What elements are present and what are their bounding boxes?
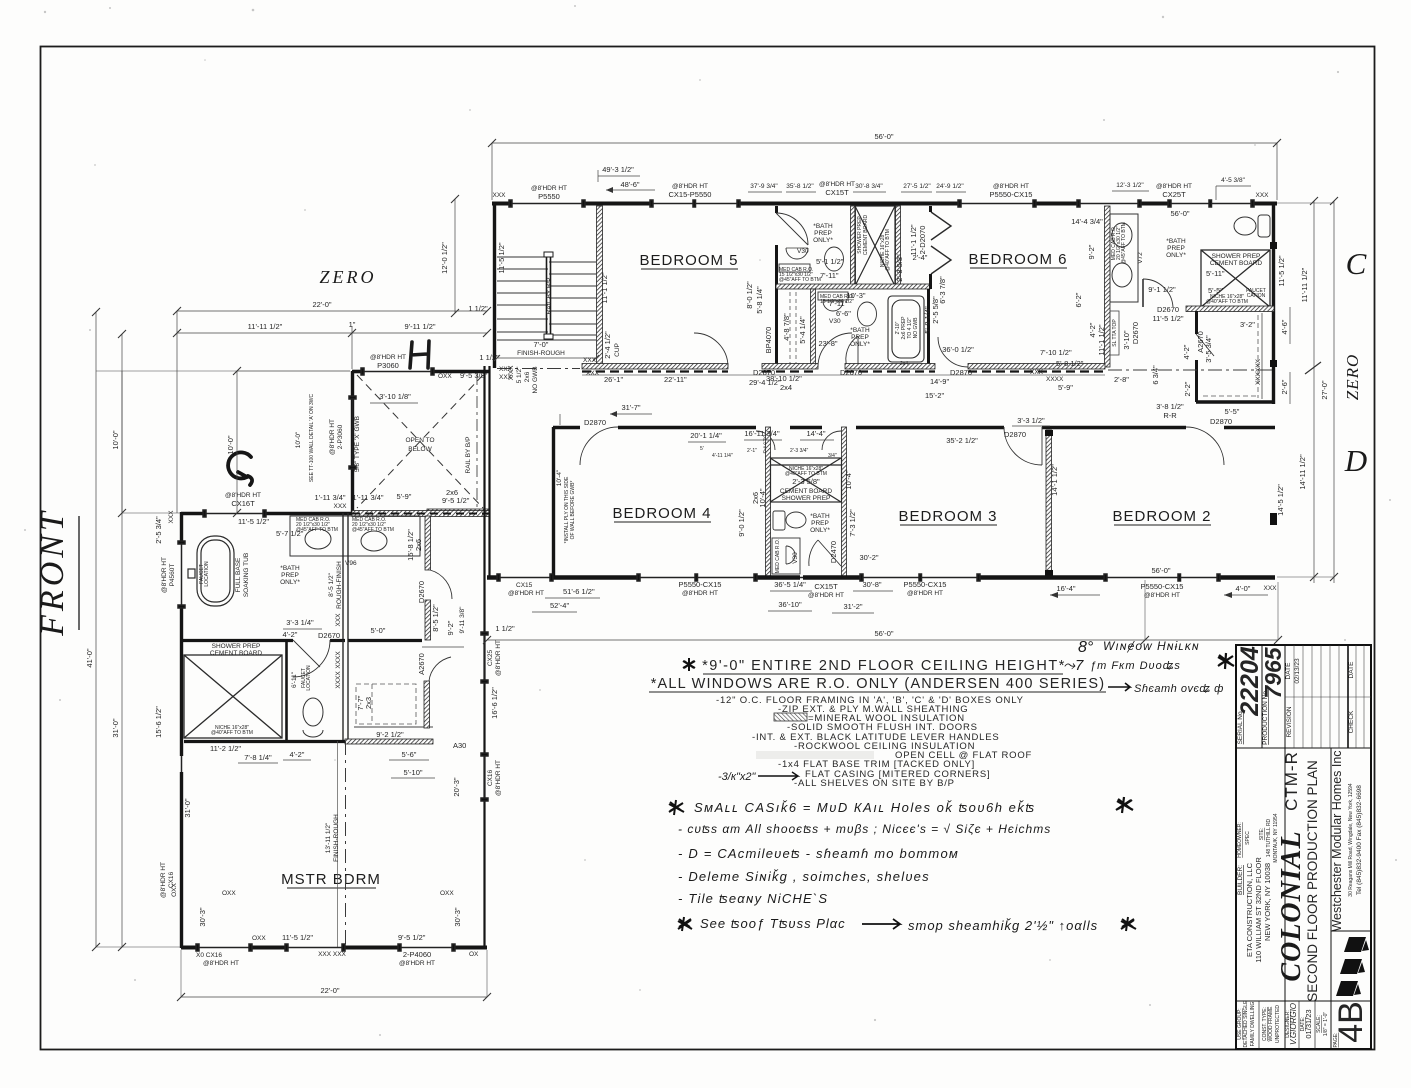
wall: mid bath left hatched x768	[766, 427, 771, 578]
svg-text:@8'HDR HT: @8'HDR HT	[495, 760, 502, 796]
svg-text:@8'HDR HT: @8'HDR HT	[531, 185, 567, 192]
shower prep wing box	[184, 655, 282, 738]
svg-text:BEDROOM 5: BEDROOM 5	[639, 252, 738, 269]
svg-text:3'-10 1/8": 3'-10 1/8"	[379, 392, 411, 401]
window mid bottom	[285, 944, 345, 951]
room label BEDROOM 6	[968, 251, 1067, 268]
svg-text:10'-4": 10'-4"	[844, 470, 853, 489]
revision table	[1285, 645, 1371, 748]
svg-text:22'-0": 22'-0"	[312, 300, 331, 309]
window CX15 bottom-left	[497, 574, 553, 581]
room label BEDROOM 2	[1112, 508, 1211, 525]
svg-text:BEDROOM 4: BEDROOM 4	[612, 505, 711, 522]
svg-text:5'-9": 5'-9"	[397, 492, 412, 501]
logo box divider	[1331, 930, 1371, 932]
svg-text:8'-5 1/2": 8'-5 1/2"	[328, 572, 335, 596]
svg-text:56'-0": 56'-0"	[874, 132, 893, 141]
svg-text:R-R: R-R	[1163, 411, 1177, 420]
window P5550-CX15 bedroom3	[860, 574, 980, 581]
title block outer	[1236, 645, 1371, 1049]
svg-text:20'-1 1/4": 20'-1 1/4"	[690, 431, 722, 440]
svg-text:7'-11": 7'-11"	[820, 271, 839, 280]
wall: hall hatched x428 y600-640	[425, 600, 431, 640]
svg-text:FRONT: FRONT	[34, 508, 71, 637]
window P5550-CX15 bedroom4	[637, 574, 757, 581]
svg-text:8'-0 1/2": 8'-0 1/2"	[745, 281, 754, 309]
svg-text:5'-8 1/4": 5'-8 1/4"	[923, 306, 932, 334]
svg-text:1 1/2": 1 1/2"	[468, 304, 488, 313]
wing mate line x345 y640-741	[343, 640, 348, 741]
svg-text:3'-2": 3'-2"	[1240, 320, 1255, 329]
left vertical dim 10'-0" upper	[111, 371, 122, 513]
svg-text:REVISION: REVISION	[1286, 706, 1293, 737]
wall: bedroom3/2 divider x1048	[1046, 430, 1052, 573]
svg-text:7'-3 1/2": 7'-3 1/2"	[848, 509, 857, 537]
svg-text:4'-2": 4'-2"	[290, 750, 305, 759]
door D2870 bedroom4	[580, 427, 618, 465]
svg-text:FAMILY DWELLING: FAMILY DWELLING	[1250, 1001, 1256, 1046]
svg-text:ETA CONSTRUCTION, LLC: ETA CONSTRUCTION, LLC	[1245, 862, 1254, 957]
vertical dim 10'-0" at x237	[226, 367, 350, 517]
svg-text:ONLY*: ONLY*	[280, 579, 300, 586]
dim 22'-0" top-left	[173, 300, 491, 315]
svg-text:7'-10 1/2": 7'-10 1/2"	[1040, 348, 1072, 357]
wall: wc top y640	[181, 639, 422, 642]
svg-text:11'-11 1/2": 11'-11 1/2"	[248, 322, 283, 331]
svg-text:@8'HDR HT: @8'HDR HT	[495, 640, 502, 676]
svg-text:@45"AFF TO BTM: @45"AFF TO BTM	[1121, 222, 1127, 264]
svg-text:9'-5 1/2": 9'-5 1/2"	[398, 933, 426, 942]
svg-text:56'-0": 56'-0"	[874, 629, 893, 638]
svg-text:*ALL WINDOWS ARE R.O. ONLY (AN: *ALL WINDOWS ARE R.O. ONLY (ANDERSEN 400…	[651, 676, 1106, 692]
svg-text:5'-1 1/2": 5'-1 1/2"	[816, 257, 844, 266]
svg-text:XXX: XXX	[335, 613, 342, 627]
svg-text:5'-8 1/2": 5'-8 1/2"	[1056, 359, 1084, 368]
svg-text:ONLY*: ONLY*	[813, 237, 833, 244]
svg-text:30 Reagans Mill Road, Wingdale: 30 Reagans Mill Road, Wingdale, New York…	[1348, 783, 1354, 897]
svg-text:X/XX: X/XX	[508, 365, 515, 380]
svg-text:11'-5 1/2": 11'-5 1/2"	[282, 933, 313, 942]
svg-text:UNPROTECTED: UNPROTECTED	[1275, 1005, 1281, 1043]
svg-text:5'-9": 5'-9"	[1058, 383, 1073, 392]
svg-text:2-D2070: 2-D2070	[918, 226, 927, 255]
arrows under y741 dims	[238, 760, 435, 778]
svg-text:D2870: D2870	[584, 418, 606, 427]
window 2-P4060 bottom	[398, 944, 455, 951]
svg-text:2'-4 1/2": 2'-4 1/2"	[603, 331, 612, 359]
svg-text:49'-3 1/2": 49'-3 1/2"	[602, 165, 634, 174]
svg-text:FULL BASE: FULL BASE	[235, 557, 242, 592]
stairs treads	[497, 257, 596, 335]
window X0 CX16 bottom	[196, 944, 252, 951]
svg-text:5'-8 1/4": 5'-8 1/4"	[755, 286, 764, 314]
wall: wing upper-left y513	[181, 512, 352, 515]
svg-text:22'-11": 22'-11"	[664, 375, 687, 384]
svg-text:CATION: CATION	[1247, 293, 1266, 299]
FRONT label (rotated)	[34, 508, 79, 637]
svg-text:3'-8 1/2": 3'-8 1/2"	[1156, 402, 1184, 411]
wall: left exterior x181	[180, 512, 183, 948]
svg-text:*BATH: *BATH	[813, 223, 833, 230]
tub full base soaking	[188, 536, 234, 606]
svg-text:5'-5": 5'-5"	[1208, 286, 1223, 295]
handwritten note H1	[669, 800, 684, 815]
svg-text:1'-11 3/4": 1'-11 3/4"	[352, 493, 383, 502]
svg-text:SHOWER PREP: SHOWER PREP	[782, 495, 831, 502]
dim 56'-0" bottom	[483, 580, 1282, 644]
svg-text:XXX: XXX	[333, 503, 347, 510]
svg-text:NO GWB: NO GWB	[532, 366, 539, 393]
window CX15-P5550 top	[650, 200, 740, 207]
svg-text:15'-2": 15'-2"	[925, 391, 944, 400]
svg-text:22'-0": 22'-0"	[320, 986, 339, 995]
svg-text:- D = CAстіleυeʦ - sɦeатɦ: - D = CAстіleυeʦ - sɦeатɦ тo boттoм	[678, 846, 959, 861]
svg-text:6'-2": 6'-2"	[1074, 292, 1083, 307]
svg-text:12'-3 1/2": 12'-3 1/2"	[1116, 182, 1144, 189]
wall: left wing top y371	[352, 370, 490, 374]
printed asterisk left	[683, 658, 695, 671]
bottom dim 22'-0" wing	[177, 950, 491, 1001]
svg-text:XXXX: XXXX	[335, 651, 342, 669]
svg-text:@8'HDR HT: @8'HDR HT	[203, 960, 239, 967]
svg-text:30'-2": 30'-2"	[859, 553, 878, 562]
svg-text:DETACHED SINGLE: DETACHED SINGLE	[1243, 1000, 1249, 1048]
svg-text:14'-5 1/2": 14'-5 1/2"	[1276, 484, 1285, 516]
svg-text:-3/к"х2": -3/к"х2"	[718, 771, 757, 783]
svg-text:XXX XXX: XXX XXX	[318, 951, 346, 958]
svg-text:5 1/2": 5 1/2"	[516, 366, 523, 383]
svg-text:CEMENT BOARD: CEMENT BOARD	[780, 488, 833, 495]
wall: shower1 left	[851, 206, 856, 286]
svg-text:10'-3": 10'-3"	[846, 291, 865, 300]
bath2 tub right	[888, 296, 924, 362]
svg-text:7'-11": 7'-11"	[829, 299, 848, 308]
svg-text:ZERO: ZERO	[320, 267, 377, 287]
svg-text:31'-2": 31'-2"	[843, 602, 862, 611]
svg-text:SHOWER PREP: SHOWER PREP	[212, 643, 261, 650]
svg-text:4'-0": 4'-0"	[1236, 584, 1251, 593]
svg-text:P3060: P3060	[377, 361, 399, 370]
svg-text:@8'HDR HT: @8'HDR HT	[1156, 183, 1192, 190]
svg-text:@8'HDR HT: @8'HDR HT	[808, 592, 844, 599]
svg-text:ONLY*: ONLY*	[850, 341, 870, 348]
wall: closet left x930	[929, 206, 932, 212]
svg-text:CX15T: CX15T	[814, 582, 838, 591]
svg-text:1 1/2": 1 1/2"	[495, 624, 515, 633]
bath2 fixtures	[818, 292, 877, 326]
svg-text:5'-6": 5'-6"	[402, 750, 417, 759]
window CX16 right wall lower	[481, 753, 488, 801]
svg-text:9'-1 1/2": 9'-1 1/2"	[1148, 285, 1176, 294]
wall: closet right hatched A2670	[424, 681, 430, 728]
svg-text:6'-3 7/8": 6'-3 7/8"	[938, 276, 947, 304]
svg-text:5/8" TYPE 'X' GWB: 5/8" TYPE 'X' GWB	[354, 416, 361, 472]
svg-text:20'-3": 20'-3"	[452, 777, 461, 796]
svg-text:BEDROOM 6: BEDROOM 6	[968, 251, 1067, 268]
svg-text:-ALL SHELVES ON SITE BY B/P: -ALL SHELVES ON SITE BY B/P	[794, 778, 955, 789]
svg-text:@8'HDR HT: @8'HDR HT	[1144, 592, 1180, 599]
wall: bath1 bottom y286	[776, 284, 930, 289]
svg-text:CTM-R: CTM-R	[1282, 751, 1301, 811]
mid bath toilet	[773, 511, 806, 530]
svg-text:PREP: PREP	[814, 230, 832, 237]
svg-text:7'-0": 7'-0"	[534, 340, 549, 349]
svg-text:36'-0 1/2": 36'-0 1/2"	[942, 345, 974, 354]
svg-text:XXX: XXX	[586, 370, 600, 377]
svg-text:CX25T: CX25T	[1162, 190, 1186, 199]
svg-text:SECOND FLOOR PRODUCTION PLAN: SECOND FLOOR PRODUCTION PLAN	[1305, 760, 1320, 1002]
svg-text:36'-10": 36'-10"	[778, 600, 802, 609]
svg-text:BEDROOM 3: BEDROOM 3	[898, 508, 997, 525]
window 2-P3060 on x352	[349, 396, 356, 469]
door A2670 right	[1196, 334, 1214, 356]
stair landing line	[497, 339, 596, 341]
wall: top module left exterior	[493, 202, 496, 368]
svg-text:@45"AFF TO BTM: @45"AFF TO BTM	[779, 277, 821, 283]
svg-text:@8'HDR HT: @8'HDR HT	[993, 183, 1029, 190]
svg-text:15'-8 1/2": 15'-8 1/2"	[406, 529, 415, 561]
svg-text:30'-8": 30'-8"	[862, 580, 881, 589]
svg-text:110 WILLIAM ST 32ND FLOOR: 110 WILLIAM ST 32ND FLOOR	[1254, 857, 1263, 963]
svg-text:See ʦooƒ Tʦυss Plαс: See ʦooƒ Tʦυss Plαс	[700, 916, 846, 931]
note line 2: windows RO	[649, 676, 1106, 692]
svg-text:D2670: D2670	[1157, 305, 1179, 314]
svg-text:CHECK: CHECK	[1348, 710, 1355, 733]
svg-text:30'-3": 30'-3"	[453, 907, 462, 926]
wall: rooms bottom y577 with windows	[487, 575, 1275, 580]
svg-text:56'-0": 56'-0"	[1170, 209, 1189, 218]
svg-text:WOOD FRAME: WOOD FRAME	[1268, 1006, 1274, 1042]
svg-text:@8'HDR HT: @8'HDR HT	[399, 960, 435, 967]
svg-text:@8'HDR HT: @8'HDR HT	[370, 354, 406, 361]
svg-text:XXXXXX: XXXXXX	[1255, 358, 1262, 385]
svg-text:01/31/23: 01/31/23	[1304, 1009, 1313, 1038]
svg-text:4B: 4B	[1332, 1001, 1370, 1043]
svg-text:- Deleтe Sіɴіǩg , sоітche: - Deleтe Sіɴіǩg , sоітches, shelυes	[678, 869, 930, 884]
svg-text:1 1/2": 1 1/2"	[479, 353, 499, 362]
svg-text:LOCATION: LOCATION	[204, 561, 210, 587]
svg-text:3'-3 1/4": 3'-3 1/4"	[286, 618, 314, 627]
corridor door D2870 arc left	[694, 333, 728, 367]
door D2870 bedroom2	[1186, 427, 1224, 465]
svg-text:4'-5 3/8": 4'-5 3/8"	[1221, 177, 1245, 184]
window CX16T	[203, 510, 266, 517]
svg-text:35'-2 1/2": 35'-2 1/2"	[946, 436, 978, 445]
svg-text:P5550-CX15: P5550-CX15	[904, 580, 947, 589]
svg-text:CX25: CX25	[487, 649, 494, 666]
svg-text:11'-1 1/2": 11'-1 1/2"	[600, 272, 609, 303]
svg-text:CEMENT BOARD: CEMENT BOARD	[863, 215, 869, 256]
svg-text:9'-2": 9'-2"	[446, 620, 455, 635]
svg-text:52'-4": 52'-4"	[550, 601, 569, 610]
wall: bath2 right x928	[927, 289, 930, 367]
svg-text:CX15: CX15	[516, 582, 533, 589]
svg-text:SOAKING TUB: SOAKING TUB	[243, 553, 250, 597]
wall: top exterior	[492, 202, 1277, 206]
wall: right closet bottom y402	[1196, 400, 1274, 403]
svg-text:*BATH: *BATH	[850, 327, 870, 334]
svg-text:XXX: XXX	[492, 192, 506, 199]
logo parallelograms	[1336, 937, 1369, 996]
svg-text:2x6: 2x6	[414, 539, 423, 551]
right bath: toilet top-right	[1234, 215, 1270, 237]
svg-text:Westchester Modular Homes I: Westchester Modular Homes Inc	[1330, 750, 1344, 931]
svg-text:4'-6": 4'-6"	[1280, 319, 1289, 334]
svg-text:15'-6 1/2": 15'-6 1/2"	[154, 706, 163, 738]
svg-text:38'-10 1/2": 38'-10 1/2"	[766, 374, 802, 383]
svg-text:X0 CX16: X0 CX16	[196, 952, 222, 959]
wall: wing vertical x352	[351, 371, 354, 513]
svg-text:V72: V72	[1137, 252, 1144, 264]
svg-text:SHOWER PREP: SHOWER PREP	[1212, 253, 1261, 260]
svg-text:*BATH: *BATH	[280, 565, 300, 572]
svg-text:4'-2": 4'-2"	[1088, 322, 1097, 337]
svg-text:ƒт Fкт Dυoʥs: ƒт Fкт Dυoʥs	[1090, 660, 1181, 672]
svg-text:@8'HDR HT: @8'HDR HT	[225, 492, 261, 499]
svg-text:7965: 7965	[1260, 646, 1286, 698]
svg-text:D: D	[1344, 443, 1367, 478]
svg-text:24'-9 1/2": 24'-9 1/2"	[936, 183, 964, 190]
svg-text:P4560T: P4560T	[169, 564, 176, 587]
svg-text:8'-5 1/2": 8'-5 1/2"	[431, 604, 440, 632]
svg-text:@40"AFF TO BTM: @40"AFF TO BTM	[1206, 299, 1248, 305]
dim 7'-0" finish-rough	[494, 340, 599, 361]
svg-text:2x4: 2x4	[780, 383, 792, 392]
svg-text:4'-8 7/8": 4'-8 7/8"	[782, 313, 791, 341]
svg-text:26'-1": 26'-1"	[604, 375, 623, 384]
svg-text:SмAʟʟ CASıǩ6 = MυD КAıʟ: SмAʟʟ CASıǩ6 = MυD КAıʟ Holes oǩ ʦoυ6һ e…	[694, 800, 1036, 815]
svg-text:PREP: PREP	[811, 520, 829, 527]
wall: hall hatched x428 y513-570	[425, 516, 431, 570]
svg-text:16'-6 1/2": 16'-6 1/2"	[490, 687, 499, 719]
svg-text:27'-5 1/2": 27'-5 1/2"	[903, 183, 931, 190]
svg-text:D2870: D2870	[950, 368, 972, 377]
dim 12'-0 1/2" rotated	[440, 195, 459, 317]
window CX25 on right wall	[481, 632, 488, 683]
closet dashed area wing	[356, 684, 416, 724]
note line 1: ceiling height	[702, 658, 1066, 674]
svg-text:@8'HDR HT: @8'HDR HT	[819, 181, 855, 188]
svg-text:10'-0": 10'-0"	[295, 431, 302, 448]
bottom info row	[1236, 1000, 1371, 1002]
svg-text:XXX: XXX	[1255, 192, 1269, 199]
wall: wing mid y741	[184, 740, 345, 743]
svg-text:@8'HDR HT: @8'HDR HT	[508, 590, 544, 597]
corridor wall y366 hatched segments	[582, 364, 728, 370]
svg-text:11'-11 1/2": 11'-11 1/2"	[1300, 267, 1309, 302]
svg-text:10'-4": 10'-4"	[758, 488, 767, 507]
svg-text:30'-8 3/4": 30'-8 3/4"	[855, 183, 883, 190]
door D2670 wing hall	[430, 570, 452, 599]
wall: bedroom5 right / bath1 left	[775, 206, 778, 367]
svg-text:CX15-P5550: CX15-P5550	[669, 190, 712, 199]
stair center rail	[544, 252, 553, 339]
mate dash line master x345	[345, 741, 347, 948]
svg-text:48'-6": 48'-6"	[620, 180, 639, 189]
svg-text:D2870: D2870	[1004, 430, 1026, 439]
svg-text:SITE:: SITE:	[1259, 828, 1265, 841]
svg-text:11'-1 1/2": 11'-1 1/2"	[1097, 324, 1106, 355]
svg-text:XXXX: XXXX	[1046, 376, 1064, 383]
svg-text:D2670: D2670	[318, 631, 340, 640]
left vertical dim 31'-0"	[111, 330, 180, 951]
svg-text:@8'HDR HT: @8'HDR HT	[161, 557, 168, 593]
door D2470 mid bath	[818, 540, 841, 566]
svg-text:P5550-CX15: P5550-CX15	[679, 580, 722, 589]
svg-text:*BATH: *BATH	[810, 513, 830, 520]
svg-text:2'-8": 2'-8"	[1114, 375, 1129, 384]
svg-text:CX16T: CX16T	[231, 499, 255, 508]
svg-text:DATE: DATE	[1285, 662, 1292, 680]
svg-text:@8'HDR HT: @8'HDR HT	[682, 590, 718, 597]
svg-text:NO GWB: NO GWB	[913, 317, 919, 338]
svg-text:RAIL BY B/P: RAIL BY B/P	[465, 437, 472, 474]
svg-text:2'-4": 2'-4"	[913, 253, 928, 262]
window left wall lower OXX	[181, 756, 183, 772]
svg-text:9'-0 1/2": 9'-0 1/2"	[737, 509, 746, 537]
room label BEDROOM 4	[612, 505, 711, 522]
doors D1670 into mid bath	[756, 431, 775, 450]
window P5550 top	[509, 200, 585, 207]
svg-text:OX: OX	[469, 951, 479, 958]
svg-text:13'-11 1/2": 13'-11 1/2"	[325, 822, 332, 853]
bath row: V96 vanity	[290, 516, 420, 556]
svg-text:11'-5 1/2": 11'-5 1/2"	[1277, 255, 1286, 286]
svg-text:2'-6": 2'-6"	[1280, 379, 1289, 394]
svg-text:P5550: P5550	[538, 192, 560, 201]
wall: stair hatched wall	[597, 206, 603, 367]
svg-text:Tel (845)832-9400 Fax (845)83: Tel (845)832-9400 Fax (845)832-6698	[1356, 785, 1363, 895]
door D2670 bath2	[846, 336, 858, 367]
svg-text:CUP: CUP	[614, 343, 621, 357]
svg-text:BP4070: BP4070	[764, 327, 773, 354]
faded correction smudge	[756, 751, 874, 759]
divider before westchester	[1330, 748, 1332, 1049]
svg-text:9'-5 1/2": 9'-5 1/2"	[442, 496, 470, 505]
svg-text:ROUGH-FINISH: ROUGH-FINISH	[336, 561, 343, 609]
svg-text:2'-3 5/8": 2'-3 5/8"	[792, 477, 820, 486]
svg-text:12'-0 1/2": 12'-0 1/2"	[440, 242, 449, 274]
svg-text:14'-1 1/2": 14'-1 1/2"	[1050, 464, 1059, 496]
svg-text:CEMENT BOARD: CEMENT BOARD	[1210, 260, 1263, 267]
svg-text:02/13/23: 02/13/23	[1294, 658, 1301, 684]
svg-text:36'-5 1/4": 36'-5 1/4"	[774, 580, 806, 589]
handwritten note H6	[678, 917, 692, 931]
room label BEDROOM 5	[639, 252, 738, 269]
window P5550-CX15 bedroom2	[1104, 574, 1220, 581]
bath1 fixtures: V30 sink, toilet	[779, 247, 844, 272]
svg-text:51'-6 1/2": 51'-6 1/2"	[563, 587, 595, 596]
svg-text:14'-9": 14'-9"	[930, 377, 949, 386]
svg-text:ONLY*: ONLY*	[810, 527, 830, 534]
svg-text:@8'HDR HT: @8'HDR HT	[160, 862, 167, 898]
serial section	[1236, 645, 1371, 1049]
svg-text:9'-11 3/8": 9'-11 3/8"	[459, 606, 466, 634]
svg-text:- сυʦs αт All shoоєʦѕ +: - сυʦs αт All shoоєʦѕ + тυβs ; Nісєє's =…	[678, 822, 1051, 836]
svg-text:⤳7: ⤳7	[1063, 657, 1084, 674]
window block bedroom2 right wall	[1270, 513, 1277, 525]
closet dashed interior right	[1203, 315, 1258, 398]
svg-text:PREP: PREP	[1167, 245, 1185, 252]
svg-text:23'-8": 23'-8"	[818, 339, 837, 348]
svg-text:MED CAB R.O.: MED CAB R.O.	[775, 539, 781, 573]
svg-text:3'-10": 3'-10"	[1122, 330, 1131, 349]
svg-text:V30: V30	[797, 248, 809, 255]
svg-text:C: C	[1346, 246, 1367, 281]
svg-text:8°: 8°	[1078, 639, 1094, 656]
SL TTA strip	[1110, 311, 1119, 355]
svg-text:XXX: XXX	[1263, 585, 1277, 592]
